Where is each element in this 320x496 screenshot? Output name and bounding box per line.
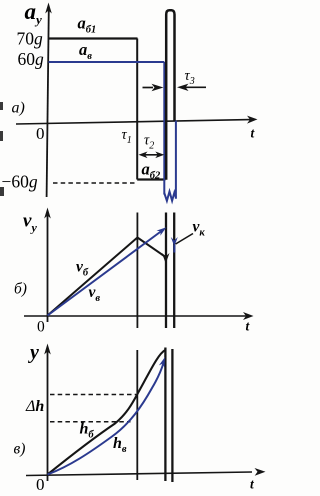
curve v_b descending segment	[137, 238, 165, 258]
curve a_b level -60g segment	[137, 178, 165, 180]
arrow h_v end (blue, up-right)	[159, 357, 165, 367]
reference line at tau1 (plot v)	[136, 350, 138, 480]
svg-text:−60g: −60g	[2, 172, 38, 192]
curve a_v drop (blue vertical)	[163, 62, 165, 195]
arrow v_v end (blue, up-right)	[157, 227, 167, 236]
svg-text:0: 0	[36, 124, 45, 143]
axis t (horizontal, plot b)	[24, 312, 254, 320]
svg-text:70g: 70g	[17, 29, 44, 49]
arrow v_b drop (black, down)	[162, 253, 170, 264]
reference line pulse right (plot b)	[173, 213, 175, 329]
curve a_b step down at tau1	[136, 39, 138, 180]
leader line from v_k to curve	[176, 234, 193, 245]
axis a_y (vertical, plot a)	[45, 3, 52, 198]
curve v_v rising segment (blue)	[48, 230, 164, 316]
reference line pulse left (plot b)	[165, 213, 167, 329]
reference line pulse left (plot v)	[164, 348, 166, 482]
double arrow tau2 interval	[139, 152, 165, 159]
svg-text:б): б)	[14, 281, 27, 298]
scan smudge left edge 3	[0, 187, 4, 196]
axis t (horizontal, plot a)	[16, 116, 258, 124]
curve h_b (black height curve)	[48, 350, 166, 475]
curve v_b rising segment	[48, 238, 138, 316]
curve a_v right edge (blue vertical up to axis)	[175, 121, 177, 199]
svg-text:0: 0	[36, 475, 45, 494]
dashed -60g level line	[53, 182, 136, 184]
reference line pulse right (plot v)	[171, 349, 173, 482]
arrow v_v drop (blue, down on pulse right line)	[171, 237, 178, 253]
svg-text:60g: 60g	[18, 49, 45, 69]
svg-text:y: y	[28, 342, 39, 364]
curve a_v jagged off-scale bottom	[164, 192, 176, 201]
dashed line upper (delta h)	[50, 394, 136, 396]
scan smudge left edge 1	[0, 102, 3, 110]
dashed line lower (delta h)	[50, 421, 131, 423]
axis t (horizontal, plot v)	[26, 468, 266, 476]
svg-text:0: 0	[37, 319, 45, 336]
svg-text:Δh: Δh	[25, 398, 44, 415]
curve a_v level 60g (blue horizontal)	[49, 61, 165, 63]
svg-text:в): в)	[14, 441, 26, 458]
svg-text:а): а)	[12, 100, 25, 117]
arrow right toward pulse (tau3 left mark)	[143, 84, 164, 91]
curve h_v (blue height curve)	[48, 363, 164, 475]
scan smudge left edge 2	[0, 131, 3, 141]
axis y (vertical, plot v)	[44, 344, 51, 482]
curve a_b pulse (black, rounded top)	[166, 10, 174, 180]
curve a_b level 70g (black horizontal)	[49, 37, 138, 39]
reference line at tau1 (plot b)	[136, 213, 138, 329]
arrow left toward pulse (tau3 right mark)	[177, 84, 206, 91]
axis v_y (vertical, plot b)	[44, 208, 51, 323]
